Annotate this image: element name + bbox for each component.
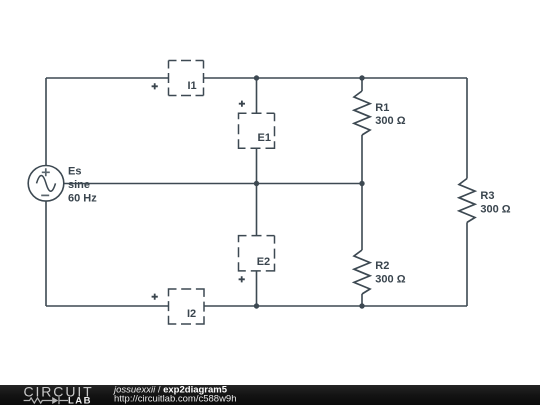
svg-text:300 Ω: 300 Ω [375,115,405,127]
svg-text:I1: I1 [188,80,197,92]
svg-text:LAB: LAB [68,395,92,405]
svg-text:300 Ω: 300 Ω [375,273,405,285]
svg-text:R1: R1 [375,102,389,114]
svg-text:60 Hz: 60 Hz [68,193,97,205]
svg-text:R2: R2 [375,260,389,272]
svg-text:http://circuitlab.com/c588w9h: http://circuitlab.com/c588w9h [114,394,237,405]
svg-text:E1: E1 [258,132,271,144]
svg-text:E2: E2 [257,256,270,268]
svg-text:Es: Es [68,166,81,178]
svg-text:sine: sine [68,179,90,191]
svg-text:I2: I2 [187,308,196,320]
svg-text:300 Ω: 300 Ω [480,204,510,216]
svg-text:R3: R3 [480,190,494,202]
